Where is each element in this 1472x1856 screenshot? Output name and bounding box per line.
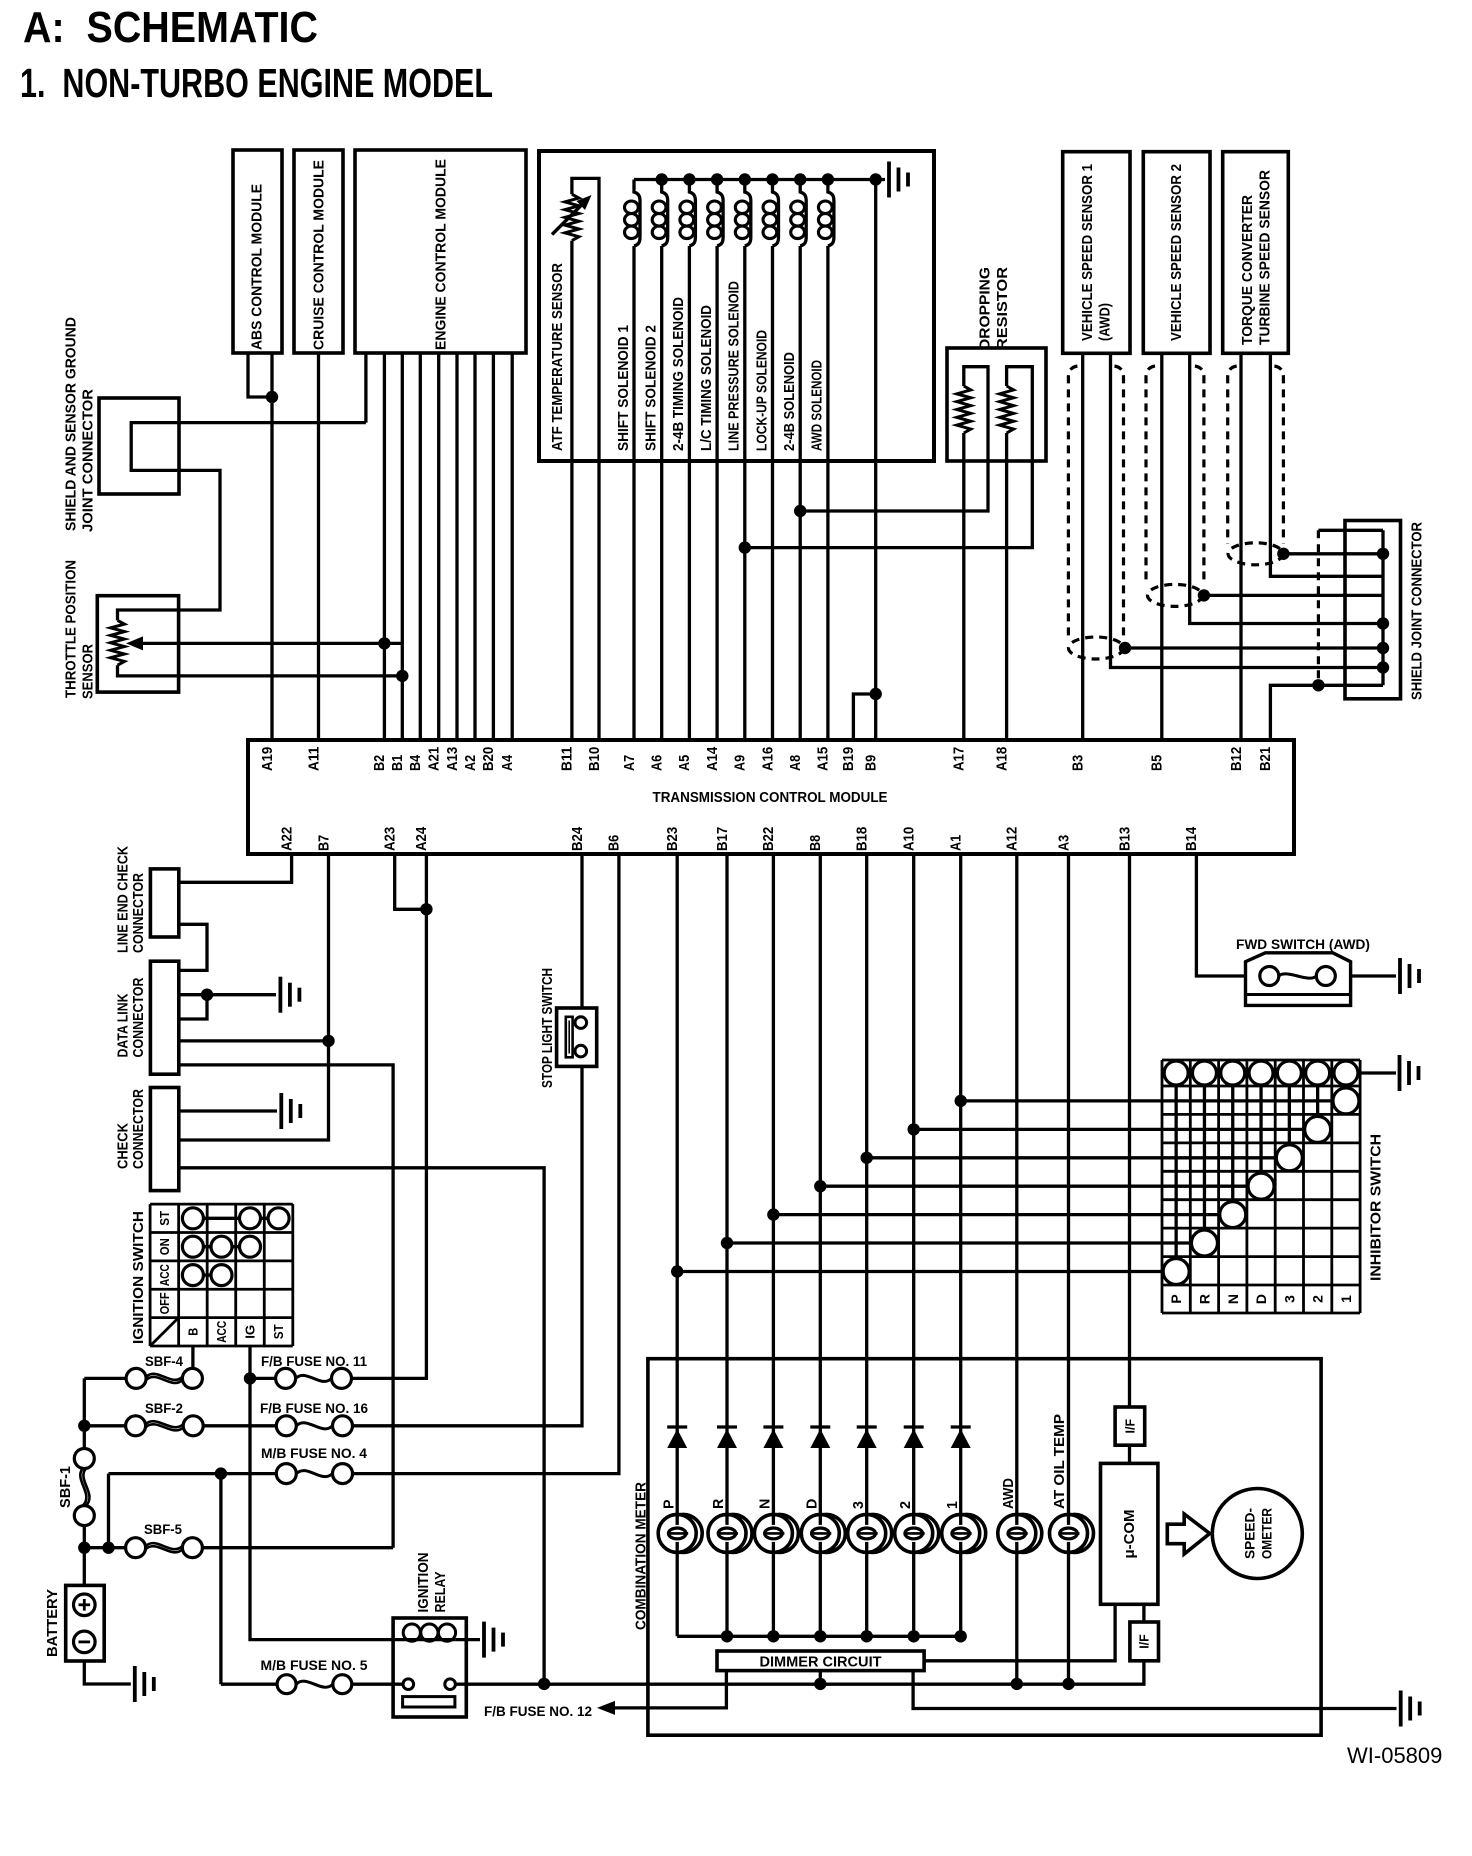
svg-text:R: R [711, 1498, 727, 1509]
label VEHICLE SPEED SENSOR 1 (AWD) [1080, 164, 1114, 341]
svg-text:A18: A18 [993, 747, 1010, 771]
label IGNITION RELAY [416, 1553, 449, 1613]
fuse SBF-5 [126, 1538, 203, 1558]
wire A22 (line end check to TCM) [179, 854, 292, 882]
junction dot TC shield [1277, 548, 1289, 560]
wire battery to SBF-5 [84, 1546, 125, 1549]
wire B3 (VSS1 to TCM) [1081, 353, 1084, 740]
wire B17 (TCM to R lamp) [725, 854, 728, 1636]
wire line-end to data-link jog [179, 924, 207, 970]
transmission control module box [248, 740, 1294, 854]
lamp P [658, 1514, 702, 1552]
junction dot bus end [870, 173, 882, 185]
svg-text:2-4B SOLENOID: 2-4B SOLENOID [782, 352, 798, 451]
wire A8 (solenoid to TCM) [799, 246, 802, 740]
ignition ACC row contacts [182, 1265, 232, 1286]
svg-text:B14: B14 [1183, 826, 1200, 851]
svg-text:B5: B5 [1149, 755, 1166, 771]
junction dot TC shield-bus [1377, 548, 1389, 560]
junction dot dimmer-L1 [814, 1678, 826, 1690]
wire A5 (solenoid to TCM) [688, 246, 691, 740]
wire M/B5 to relay [352, 1683, 403, 1686]
svg-text:A24: A24 [413, 826, 430, 851]
svg-text:COMBINATION METER: COMBINATION METER [633, 1481, 649, 1630]
svg-text:DATA LINK: DATA LINK [115, 993, 131, 1058]
wire B13 (TCM to I/F) [1128, 854, 1131, 1407]
fuse SBF-1 (vertical) [74, 1449, 94, 1526]
svg-text:ST: ST [271, 1324, 286, 1339]
svg-text:SHIELD AND SENSOR GROUND: SHIELD AND SENSOR GROUND [64, 317, 80, 531]
junction dot inhibitor tap [908, 1123, 920, 1135]
lamp 2 [895, 1514, 939, 1552]
svg-text:(AWD): (AWD) [1098, 303, 1114, 341]
wire battery to ground [84, 1661, 131, 1684]
wire B7 (TCM to check connector) [179, 854, 329, 1140]
svg-text:SHIFT SOLENOID 2: SHIFT SOLENOID 2 [644, 325, 660, 451]
svg-text:AT OIL TEMP: AT OIL TEMP [1052, 1414, 1068, 1509]
svg-text:N: N [758, 1499, 774, 1509]
wire A21 (ECM to TCM) [437, 353, 440, 740]
wire B20 (ECM to TCM) [492, 353, 495, 740]
wire B14 (TCM to FWD switch) [1196, 854, 1245, 976]
wire A17 (R1 to TCM) [962, 433, 965, 740]
lamp D [801, 1514, 845, 1552]
wire TPS wiper arrow to B2 [126, 636, 402, 650]
wire inhibitor row P [677, 1270, 1163, 1273]
wire A11 (cruise to TCM) [317, 353, 320, 740]
wire check connector ground stub [179, 1109, 277, 1112]
wire B12 (TC sensor to TCM) [1239, 353, 1242, 740]
svg-text:OFF: OFF [157, 1292, 172, 1314]
fuse SBF-2 [126, 1416, 204, 1436]
svg-text:R: R [1196, 1294, 1212, 1304]
svg-text:B9: B9 [863, 755, 880, 771]
svg-text:RESISTOR: RESISTOR [995, 266, 1011, 350]
ground (check connector) [281, 1093, 300, 1129]
ground (solenoid common) [889, 162, 908, 198]
wire FWD switch to ground [1351, 974, 1396, 977]
wire B21 (TCM to joint connector) [1270, 685, 1383, 740]
solenoid coil LOCK-UP SOLENOID [763, 180, 779, 247]
ignition switch diagonal [150, 1318, 179, 1346]
inhibitor switch grid [1162, 1060, 1360, 1313]
junction dot check line-L1 [538, 1678, 550, 1690]
lamp 3 [848, 1514, 892, 1552]
svg-text:B13: B13 [1116, 827, 1133, 851]
svg-text:ON: ON [157, 1238, 172, 1255]
wire B1 (ECM to TCM) [401, 353, 404, 740]
wire u-COM to lower I/F [1142, 1604, 1145, 1622]
wire A23 jog [395, 854, 427, 909]
wire SBF-5 output [202, 1546, 393, 1549]
svg-text:CONNECTOR: CONNECTOR [131, 872, 147, 953]
junction dot lamp bus [955, 1630, 967, 1642]
svg-text:μ-COM: μ-COM [1122, 1510, 1138, 1559]
junction dot inhibitor tap [814, 1180, 826, 1192]
svg-text:A15: A15 [815, 747, 832, 771]
svg-text:A23: A23 [382, 827, 399, 851]
solenoid coil SHIFT SOLENOID 1 [625, 180, 641, 247]
inhibitor contact N [1220, 1085, 1246, 1228]
inhibitor contact 3 [1276, 1085, 1302, 1171]
stop light switch [557, 1008, 597, 1066]
junction dot bus [794, 173, 806, 185]
wire ignition IG column to relay coil [250, 1346, 403, 1640]
svg-text:B7: B7 [315, 835, 332, 851]
svg-text:CONNECTOR: CONNECTOR [131, 1088, 147, 1169]
wire B4 (ECM to TCM) [419, 353, 422, 740]
lamp 1 [942, 1514, 986, 1552]
speedometer circle [1212, 1489, 1302, 1579]
svg-text:LINE PRESSURE SOLENOID: LINE PRESSURE SOLENOID [727, 281, 743, 451]
label LINE END CHECK CONNECTOR [115, 845, 147, 953]
wire A24 (TCM to F/B fuse 11) [352, 854, 427, 1378]
svg-text:B10: B10 [586, 747, 603, 771]
svg-text:A21: A21 [426, 747, 443, 771]
label CHECK CONNECTOR [115, 1088, 147, 1169]
svg-text:ST: ST [157, 1211, 172, 1226]
shield and sensor ground joint connector box [99, 398, 179, 494]
svg-text:A3: A3 [1055, 835, 1072, 851]
wire check connector to dimmer feed [179, 1168, 544, 1684]
diode P lamp [667, 1427, 687, 1448]
svg-text:A2: A2 [462, 755, 479, 771]
wire VSS1 shield to joint connector [1125, 646, 1383, 649]
junction dot A23-A24 [420, 903, 432, 915]
junction dot M/B4 branch [215, 1467, 227, 1479]
svg-text:M/B FUSE NO. 4: M/B FUSE NO. 4 [261, 1445, 367, 1461]
check connector box [150, 1088, 178, 1191]
ABS control module box [233, 150, 282, 353]
resistor R1 (dropping) [957, 386, 971, 433]
junction dot bus [822, 173, 834, 185]
junction dot lamp bus [814, 1630, 826, 1642]
lamp AT OIL TEMP [1050, 1514, 1094, 1552]
svg-text:A11: A11 [305, 747, 322, 771]
svg-text:OMETER: OMETER [1259, 1508, 1275, 1559]
wire VSS2 shield to joint connector [1204, 594, 1383, 597]
svg-text:ENGINE CONTROL MODULE: ENGINE CONTROL MODULE [434, 159, 450, 350]
battery plus terminal [74, 1594, 96, 1616]
fuse M/B NO. 4 [276, 1464, 352, 1484]
wire TPS bottom lead to B1 [118, 665, 403, 676]
svg-text:WI-05809: WI-05809 [1347, 1743, 1442, 1768]
svg-text:AWD: AWD [1001, 1478, 1017, 1509]
wire ECM shield lead [364, 353, 367, 423]
lamp AWD [998, 1514, 1042, 1552]
svg-text:D: D [804, 1499, 820, 1509]
solenoid assembly box [539, 151, 934, 461]
inhibitor terminal 2 [1306, 1061, 1330, 1085]
u-COM box [1101, 1463, 1158, 1604]
ground (battery) [135, 1666, 154, 1702]
wire shield step path (ECM to TPS) [118, 423, 366, 621]
inhibitor contact R [1191, 1085, 1217, 1256]
wire A18 (R2 to TCM) [1005, 433, 1008, 740]
solenoid common bus [634, 178, 885, 181]
svg-text:LOCK-UP SOLENOID: LOCK-UP SOLENOID [754, 330, 770, 451]
svg-text:B19: B19 [840, 747, 857, 771]
inhibitor terminal 3 [1277, 1061, 1301, 1085]
svg-text:M/B FUSE NO. 5: M/B FUSE NO. 5 [261, 1657, 368, 1673]
label DATA LINK CONNECTOR [115, 977, 147, 1058]
wire A1 (TCM to 1 lamp) [959, 854, 962, 1636]
wire TC shield to joint connector [1283, 552, 1383, 555]
svg-text:D: D [1253, 1294, 1269, 1304]
svg-text:B11: B11 [559, 747, 576, 771]
wire IG to F/B fuse 11 [250, 1377, 276, 1380]
solenoid coil L/C TIMING SOLENOID [708, 180, 724, 247]
svg-text:TRANSMISSION CONTROL MODULE: TRANSMISSION CONTROL MODULE [653, 790, 888, 806]
diode D lamp [810, 1427, 830, 1448]
wire dimmer to u-COM [924, 1604, 1115, 1661]
svg-text:A1: A1 [948, 835, 965, 851]
svg-text:3: 3 [1281, 1295, 1297, 1303]
junction dot inhibitor tap [767, 1208, 779, 1220]
svg-text:B6: B6 [606, 835, 623, 851]
junction dot ABS [266, 391, 278, 403]
solenoid coil 2-4B SOLENOID [791, 180, 807, 247]
shield dashes TC sensor [1228, 366, 1284, 565]
svg-text:IGNITION: IGNITION [416, 1553, 432, 1613]
junction dot VSS2 shield [1198, 589, 1210, 601]
svg-text:A6: A6 [649, 755, 666, 771]
engine control module box [355, 150, 526, 353]
svg-text:VEHICLE SPEED SENSOR 1: VEHICLE SPEED SENSOR 1 [1080, 164, 1096, 341]
wire relay output (L1) [455, 1661, 1144, 1684]
junction dot inhibitor tap [955, 1095, 967, 1107]
fuse F/B NO. 16 [276, 1416, 352, 1436]
svg-text:B18: B18 [854, 827, 871, 851]
wire A10 (TCM to 2 lamp) [912, 854, 915, 1636]
junction dot F/B11 feed [244, 1372, 256, 1384]
diode 3 lamp [857, 1427, 877, 1448]
junction dot VSS1 lead-bus [1377, 661, 1389, 673]
junction dot bus [711, 173, 723, 185]
svg-text:ABS CONTROL MODULE: ABS CONTROL MODULE [250, 184, 266, 350]
svg-text:INHIBITOR SWITCH: INHIBITOR SWITCH [1369, 1134, 1385, 1281]
svg-text:F/B FUSE NO. 12: F/B FUSE NO. 12 [484, 1703, 592, 1719]
svg-text:A12: A12 [1004, 827, 1021, 851]
wire A15 (solenoid to TCM) [826, 246, 829, 740]
junction dot VSS1 shield [1119, 642, 1131, 654]
svg-text:SBF-1: SBF-1 [58, 1466, 74, 1508]
svg-text:P: P [661, 1499, 677, 1509]
ground (relay) [484, 1622, 503, 1658]
svg-text:CONNECTOR: CONNECTOR [131, 977, 147, 1058]
svg-text:B: B [186, 1328, 201, 1336]
wire battery to SBF-2 [84, 1424, 125, 1427]
label SHIELD AND SENSOR GROUND JOINT CONNECTOR [64, 317, 97, 532]
diode 2 lamp [904, 1427, 924, 1448]
wire B8 (TCM to D lamp) [819, 854, 822, 1636]
svg-text:AWD SOLENOID: AWD SOLENOID [810, 360, 826, 451]
I/F box lower [1130, 1622, 1159, 1661]
svg-text:B17: B17 [714, 827, 731, 851]
relay contact right [445, 1679, 456, 1690]
ignition ON row contacts [182, 1236, 260, 1257]
battery box [66, 1585, 105, 1661]
fuse F/B NO. 11 [276, 1368, 352, 1388]
solenoid coil LINE PRESSURE SOLENOID [735, 180, 751, 247]
torque converter turbine speed sensor box [1223, 152, 1289, 354]
svg-text:A13: A13 [444, 747, 461, 771]
junction dot M/B riser-SBF5 [102, 1542, 114, 1554]
fuse SBF-4 [126, 1368, 202, 1388]
wire M/B4-M/B5 branch [219, 1474, 222, 1685]
ground (bottom right) [1401, 1691, 1420, 1727]
wire SBF-2 to F/B fuse 16 [203, 1424, 276, 1427]
inhibitor terminal 1 [1334, 1061, 1358, 1085]
wire A9 (solenoid to TCM) [743, 246, 746, 740]
vehicle speed sensor 2 box [1143, 152, 1210, 354]
combination meter box [648, 1359, 1321, 1736]
wire dropping R1 top to A8 wire [800, 367, 988, 511]
svg-text:SPEED-: SPEED- [1242, 1508, 1258, 1559]
lamp N [754, 1514, 798, 1552]
line end check connector box [150, 869, 178, 937]
wire A4 (ECM to TCM) [511, 353, 514, 740]
junction dot bus [656, 173, 668, 185]
wire data link ground stub A [179, 993, 276, 996]
wire A2 (ECM to TCM) [473, 353, 476, 740]
relay coil [403, 1624, 456, 1641]
svg-text:SENSOR: SENSOR [81, 643, 97, 699]
inhibitor terminal P [1164, 1061, 1188, 1085]
diode R lamp [717, 1427, 737, 1448]
svg-text:CRUISE CONTROL MODULE: CRUISE CONTROL MODULE [312, 160, 328, 350]
svg-text:IG: IG [243, 1325, 258, 1339]
throttle position sensor box [97, 596, 178, 692]
svg-text:A10: A10 [901, 827, 918, 851]
svg-text:A: SCHEMATIC: A: SCHEMATIC [23, 3, 318, 52]
svg-text:P: P [1168, 1294, 1184, 1303]
svg-text:A5: A5 [676, 755, 693, 771]
svg-text:ATF TEMPERATURE SENSOR: ATF TEMPERATURE SENSOR [550, 262, 566, 451]
dropping resistor box [947, 348, 1046, 461]
svg-text:A9: A9 [732, 755, 749, 771]
junction dot battery-SBF2 [78, 1420, 90, 1432]
svg-text:L/C TIMING SOLENOID: L/C TIMING SOLENOID [699, 305, 715, 451]
wire B2 (ECM to TCM) [383, 353, 386, 740]
ignition switch grid [150, 1204, 293, 1346]
wire A7 (solenoid to TCM) [632, 246, 635, 740]
svg-text:A4: A4 [499, 754, 516, 771]
wire B22 (TCM to N lamp) [772, 854, 775, 1636]
junction dot data link-B7 [322, 1035, 334, 1047]
joint connector bus [1381, 530, 1384, 685]
I/F box upper [1115, 1407, 1145, 1445]
ground (FWD switch) [1400, 958, 1419, 994]
svg-text:B12: B12 [1228, 747, 1245, 771]
shield dashes VSS1 [1068, 366, 1123, 659]
wire B5 (VSS2 to TCM) [1160, 353, 1163, 740]
relay armature bar [403, 1697, 455, 1707]
junction dot bus [683, 173, 695, 185]
svg-text:B4: B4 [407, 754, 424, 771]
svg-text:THROTTLE POSITION: THROTTLE POSITION [64, 560, 80, 698]
wire inhibitor row R [727, 1241, 1191, 1244]
svg-text:A19: A19 [259, 747, 276, 771]
dimmer circuit box [717, 1651, 924, 1671]
inhibitor contact D [1248, 1085, 1274, 1199]
svg-text:ACC: ACC [157, 1264, 172, 1286]
label TORQUE CONVERTER TURBINE SPEED SENSOR [1240, 169, 1274, 345]
resistor R2 (dropping) [1000, 386, 1014, 433]
svg-text:B24: B24 [569, 826, 586, 851]
fuse M/B NO. 5 [277, 1675, 352, 1694]
wire A3 (TCM to AT OIL TEMP lamp) [1067, 854, 1070, 1684]
svg-text:RELAY: RELAY [433, 1571, 449, 1612]
wire A19 (ABS to TCM) [270, 353, 273, 740]
wire data link ground stub B [179, 995, 207, 1019]
svg-text:B23: B23 [664, 827, 681, 851]
junction dot drain-B21 [1312, 679, 1324, 691]
ATF temperature sensor thermistor [552, 194, 592, 240]
lamp R [708, 1514, 752, 1552]
wire I/F to u-COM [1128, 1445, 1131, 1463]
svg-text:SHIFT SOLENOID 1: SHIFT SOLENOID 1 [616, 325, 632, 451]
svg-text:I/F: I/F [1124, 1419, 1138, 1434]
wire ATF lead B10 [572, 178, 599, 740]
inhibitor contact 1 [1333, 1085, 1359, 1114]
wire B6 (TCM to M/B fuse 4) [353, 854, 619, 1474]
ground (data link) [280, 977, 299, 1013]
vehicle speed sensor 1 box [1063, 152, 1130, 354]
diode N lamp [763, 1427, 783, 1448]
svg-text:2: 2 [898, 1501, 914, 1509]
svg-text:JOINT CONNECTOR: JOINT CONNECTOR [81, 388, 97, 532]
FWD switch (AWD) [1246, 953, 1351, 1006]
joint connector dashed drain [1317, 530, 1320, 685]
svg-text:B20: B20 [480, 747, 497, 771]
junction dot lamp bus [721, 1630, 733, 1642]
wire M/B feed riser [107, 1474, 110, 1548]
data link connector box [150, 961, 178, 1074]
wire ignition B column to SBF-4 [191, 1346, 194, 1368]
wire dropping R2 top to A9 wire [745, 367, 1033, 548]
cruise control module box [294, 150, 343, 353]
solenoid coil SHIFT SOLENOID 2 [652, 180, 668, 247]
junction dot R1-A8 [794, 505, 806, 517]
svg-text:A17: A17 [951, 747, 968, 771]
wire inhibitor row 1 [961, 1099, 1333, 1102]
svg-text:2: 2 [1310, 1295, 1326, 1303]
svg-text:STOP LIGHT SWITCH: STOP LIGHT SWITCH [540, 968, 556, 1088]
wire TC sensor right lead [1270, 353, 1383, 576]
wire ATF lead B11 [570, 241, 573, 740]
junction dot AWD-L1 [1011, 1678, 1023, 1690]
ignition relay box [393, 1618, 466, 1717]
wire B18 (TCM to 3 lamp) [865, 854, 868, 1636]
wire B23 (TCM to P lamp) [676, 854, 679, 1636]
junction dot bus [739, 173, 751, 185]
relay contact left [403, 1679, 414, 1690]
junction dot VSS2 lead-bus [1377, 617, 1389, 629]
ignition ST row contacts [182, 1208, 289, 1229]
svg-text:B1: B1 [389, 755, 406, 771]
svg-text:DIMMER CIRCUIT: DIMMER CIRCUIT [760, 1655, 882, 1671]
svg-text:2-4B TIMING SOLENOID: 2-4B TIMING SOLENOID [671, 297, 687, 451]
inhibitor terminal N [1221, 1061, 1245, 1085]
svg-text:1: 1 [945, 1501, 961, 1509]
wire A6 (solenoid to TCM) [660, 246, 663, 740]
solenoid coil 2-4B TIMING SOLENOID [680, 180, 696, 247]
svg-text:A8: A8 [787, 755, 804, 771]
svg-text:F/B FUSE NO. 16: F/B FUSE NO. 16 [260, 1400, 368, 1416]
svg-text:BATTERY: BATTERY [45, 1589, 61, 1657]
svg-text:N: N [1225, 1294, 1241, 1304]
